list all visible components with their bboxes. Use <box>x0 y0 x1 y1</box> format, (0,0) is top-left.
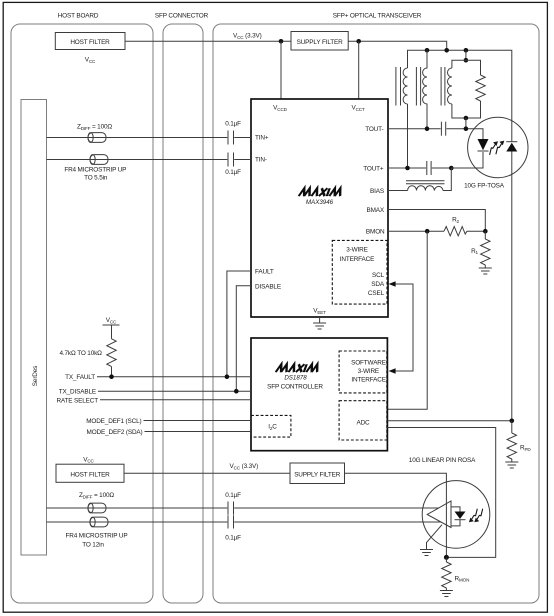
svg-text:TIN-: TIN- <box>255 157 267 164</box>
ADC box <box>339 401 387 440</box>
SFP connector outline <box>163 24 203 603</box>
wire BMAX <box>388 210 485 232</box>
SFP+ optical transceiver outline <box>213 24 539 603</box>
wire bead supply bus <box>408 50 512 141</box>
wire R3 to TX_FAULT <box>111 367 113 377</box>
resistor R1 <box>471 231 490 265</box>
wire C1 to TIN+ pin <box>234 137 251 139</box>
wire 3-wire link with arrows <box>389 281 413 374</box>
wire C5 to ROSA amp <box>234 507 439 509</box>
svg-text:BIAS: BIAS <box>370 188 384 195</box>
3-wire interface box (MAX3946) <box>332 240 387 304</box>
photodiode PD2 loop <box>451 507 466 526</box>
svg-text:SUPPLY FILTER: SUPPLY FILTER <box>294 471 341 478</box>
wire TIN- <box>47 159 228 161</box>
capacitor C6 0.1uF <box>225 515 241 541</box>
wire VCCD drop <box>280 41 282 99</box>
wire VCCT drop <box>358 41 360 99</box>
svg-text:TO 12in: TO 12in <box>82 542 104 549</box>
software 3-wire interface box <box>339 351 387 393</box>
wire laser cathode link <box>451 152 483 168</box>
node bus coil2 <box>425 48 430 53</box>
svg-text:MODE_DEF2 (SDA): MODE_DEF2 (SDA) <box>87 429 143 436</box>
MAX3946 box U1 <box>251 99 388 317</box>
svg-text:3-WIRE: 3-WIRE <box>358 368 379 375</box>
resistor RMON <box>442 557 470 588</box>
svg-text:SFP+ OPTICAL TRANSCEIVER: SFP+ OPTICAL TRANSCEIVER <box>333 13 422 20</box>
svg-text:TOUT-: TOUT- <box>365 126 383 133</box>
svg-text:MODE_DEF1 (SCL): MODE_DEF1 (SCL) <box>86 418 141 425</box>
inductor L2 (TOUT- pullup bead) <box>416 50 427 128</box>
svg-text:DS1878: DS1878 <box>284 375 307 382</box>
svg-text:SOFTWARE: SOFTWARE <box>351 360 386 367</box>
svg-text:BMON: BMON <box>366 229 385 236</box>
resistor RPD <box>507 421 531 459</box>
svg-text:10G LINEAR PIN ROSA: 10G LINEAR PIN ROSA <box>409 457 476 464</box>
node TX_DISABLE <box>234 389 239 394</box>
wire L1 to TOUT+ <box>407 104 409 168</box>
node TOUT- L2 <box>425 126 430 131</box>
microstrip Z3 <box>88 503 106 513</box>
svg-text:FR4 MICROSTRIP UP: FR4 MICROSTRIP UP <box>66 533 128 540</box>
svg-text:SerDes: SerDes <box>32 366 39 386</box>
ground below RMON <box>440 588 453 597</box>
I2C box <box>251 415 291 437</box>
inductor L1 (TOUT+ pullup bead) <box>396 67 408 106</box>
microstrip Z4 <box>90 517 108 527</box>
microstrip Z1 <box>88 133 106 143</box>
wire ROSA out 2 <box>47 521 228 523</box>
light arrows TOSA <box>490 141 505 155</box>
node ROSA bias RMON <box>444 555 449 560</box>
inductor L4 bias choke <box>406 181 445 191</box>
host filter HF2 <box>56 456 124 482</box>
capacitor C3 (TOUT-) <box>441 122 445 136</box>
wire TX_FAULT <box>97 376 251 378</box>
tank L3 R parallel network <box>441 50 485 128</box>
svg-text:DISABLE: DISABLE <box>255 283 281 290</box>
wire TOUT+ segment B <box>432 167 452 169</box>
wire host filter to supply filter (top) <box>125 40 291 42</box>
node BMON tap <box>425 229 430 234</box>
svg-text:RATE SELECT: RATE SELECT <box>56 397 98 404</box>
supply filter SF1 <box>291 32 348 51</box>
svg-text:HOST FILTER: HOST FILTER <box>70 39 110 46</box>
wire MODE_DEF1 <box>144 420 252 422</box>
wire TIN+ <box>47 137 228 139</box>
wire ADC to PD monitor node <box>387 420 511 422</box>
svg-text:0.1µF: 0.1µF <box>225 492 241 499</box>
wire BMON to ADC <box>387 231 427 409</box>
svg-text:INTERFACE: INTERFACE <box>351 377 386 384</box>
svg-text:TIN+: TIN+ <box>255 135 269 142</box>
node TOUT+ L1 <box>405 166 410 171</box>
svg-text:CSEL: CSEL <box>368 290 385 297</box>
wire ROSA out 1 <box>47 507 228 509</box>
svg-text:ADC: ADC <box>356 420 370 427</box>
resistor R2 <box>444 217 467 236</box>
capacitor C2 0.1uF <box>225 153 241 176</box>
wire BIAS <box>388 190 408 192</box>
wire TOUT- segment B to laser <box>446 129 483 139</box>
wire TOUT+ segment A <box>388 167 426 169</box>
svg-text:4.7kΩ TO 10kΩ: 4.7kΩ TO 10kΩ <box>59 350 102 357</box>
DS1878 box U2 <box>251 338 387 451</box>
svg-text:MAX3946: MAX3946 <box>306 199 334 206</box>
wire PD1 to monitor node <box>511 152 513 421</box>
svg-text:I2C: I2C <box>268 424 277 431</box>
resistor R3 pullup 4.7k-10k <box>59 339 116 367</box>
pullup Vcc symbol <box>103 317 120 339</box>
wire C2 to TIN- pin <box>234 159 251 161</box>
svg-text:SDA: SDA <box>371 281 385 288</box>
wire TX_DISABLE <box>98 390 251 392</box>
laser diode LD <box>478 139 489 151</box>
capacitor C1 0.1uF <box>225 121 241 145</box>
svg-text:SFP CONNECTOR: SFP CONNECTOR <box>155 13 209 20</box>
svg-text:0.1µF: 0.1µF <box>225 121 241 128</box>
TOSA circle <box>468 117 528 177</box>
node TX_FAULT FAULT <box>225 374 230 379</box>
wire MODE_DEF2 <box>145 431 252 433</box>
svg-text:FAULT: FAULT <box>255 268 274 275</box>
host filter HF1 <box>55 33 125 50</box>
svg-text:3-WIRE: 3-WIRE <box>346 247 367 254</box>
monitor photodiode PD1 <box>506 142 517 152</box>
wire RATE SELECT <box>100 399 251 401</box>
svg-text:HOST FILTER: HOST FILTER <box>70 471 110 478</box>
node bus feed <box>444 48 449 53</box>
svg-text:INTERFACE: INTERFACE <box>340 256 375 263</box>
ROSA amplifier A1 <box>427 501 451 528</box>
svg-text:SFP CONTROLLER: SFP CONTROLLER <box>267 383 323 390</box>
svg-text:SUPPLY FILTER: SUPPLY FILTER <box>297 39 344 46</box>
wire ADC to ROSA output loop <box>387 428 495 558</box>
svg-text:SCL: SCL <box>372 272 385 279</box>
svg-text:FR4 MICROSTRIP UP: FR4 MICROSTRIP UP <box>64 166 126 173</box>
wire DISABLE <box>236 286 251 391</box>
wire supply filter 2 to ROSA bias <box>345 473 447 557</box>
svg-text:TOUT+: TOUT+ <box>363 165 384 172</box>
svg-text:0.1µF: 0.1µF <box>225 535 241 542</box>
svg-text:HOST BOARD: HOST BOARD <box>58 13 99 20</box>
ground below VEET <box>313 317 326 329</box>
node bus tank <box>464 48 469 53</box>
capacitor C4 (TOUT+) <box>427 161 431 175</box>
wire supply filter to bead bus <box>348 41 447 50</box>
wire TOUT- segment A <box>388 128 441 130</box>
wire host filter 2 to supply filter 2 <box>124 472 290 474</box>
node VCCD tap <box>279 39 284 44</box>
svg-text:TX_DISABLE: TX_DISABLE <box>59 388 96 395</box>
light arrows ROSA <box>469 509 483 523</box>
node PD RPD ADC <box>510 419 515 424</box>
svg-text:TX_FAULT: TX_FAULT <box>65 374 95 381</box>
node TX_FAULT pullup <box>109 374 114 379</box>
svg-text:10G FP-TOSA: 10G FP-TOSA <box>464 182 505 189</box>
wire R2 to junction <box>467 230 485 232</box>
svg-text:BMAX: BMAX <box>366 207 384 214</box>
svg-text:0.1µF: 0.1µF <box>225 169 241 176</box>
wire BMON <box>388 230 444 232</box>
ground below RPD <box>505 459 518 468</box>
node R1 R2 BMAX junction <box>483 229 488 234</box>
ground below R1 <box>479 265 492 274</box>
SerDes block <box>21 100 47 556</box>
microstrip Z2 <box>90 155 108 165</box>
svg-text:TO 5.5in: TO 5.5in <box>84 174 108 181</box>
wire FAULT <box>227 271 251 377</box>
ROSA circle <box>422 481 490 549</box>
node TOUT- tank tap <box>464 126 469 131</box>
wire C6 to ROSA amp <box>234 521 441 523</box>
wire choke to TOUT+ node <box>443 168 451 191</box>
supply filter SF2 <box>290 463 345 484</box>
node VCCT tap <box>356 39 361 44</box>
node TOUT+ laser cathode <box>449 166 454 171</box>
host board outline <box>11 24 153 603</box>
capacitor C5 0.1uF <box>225 492 241 515</box>
ROSA amp ground <box>420 525 442 556</box>
